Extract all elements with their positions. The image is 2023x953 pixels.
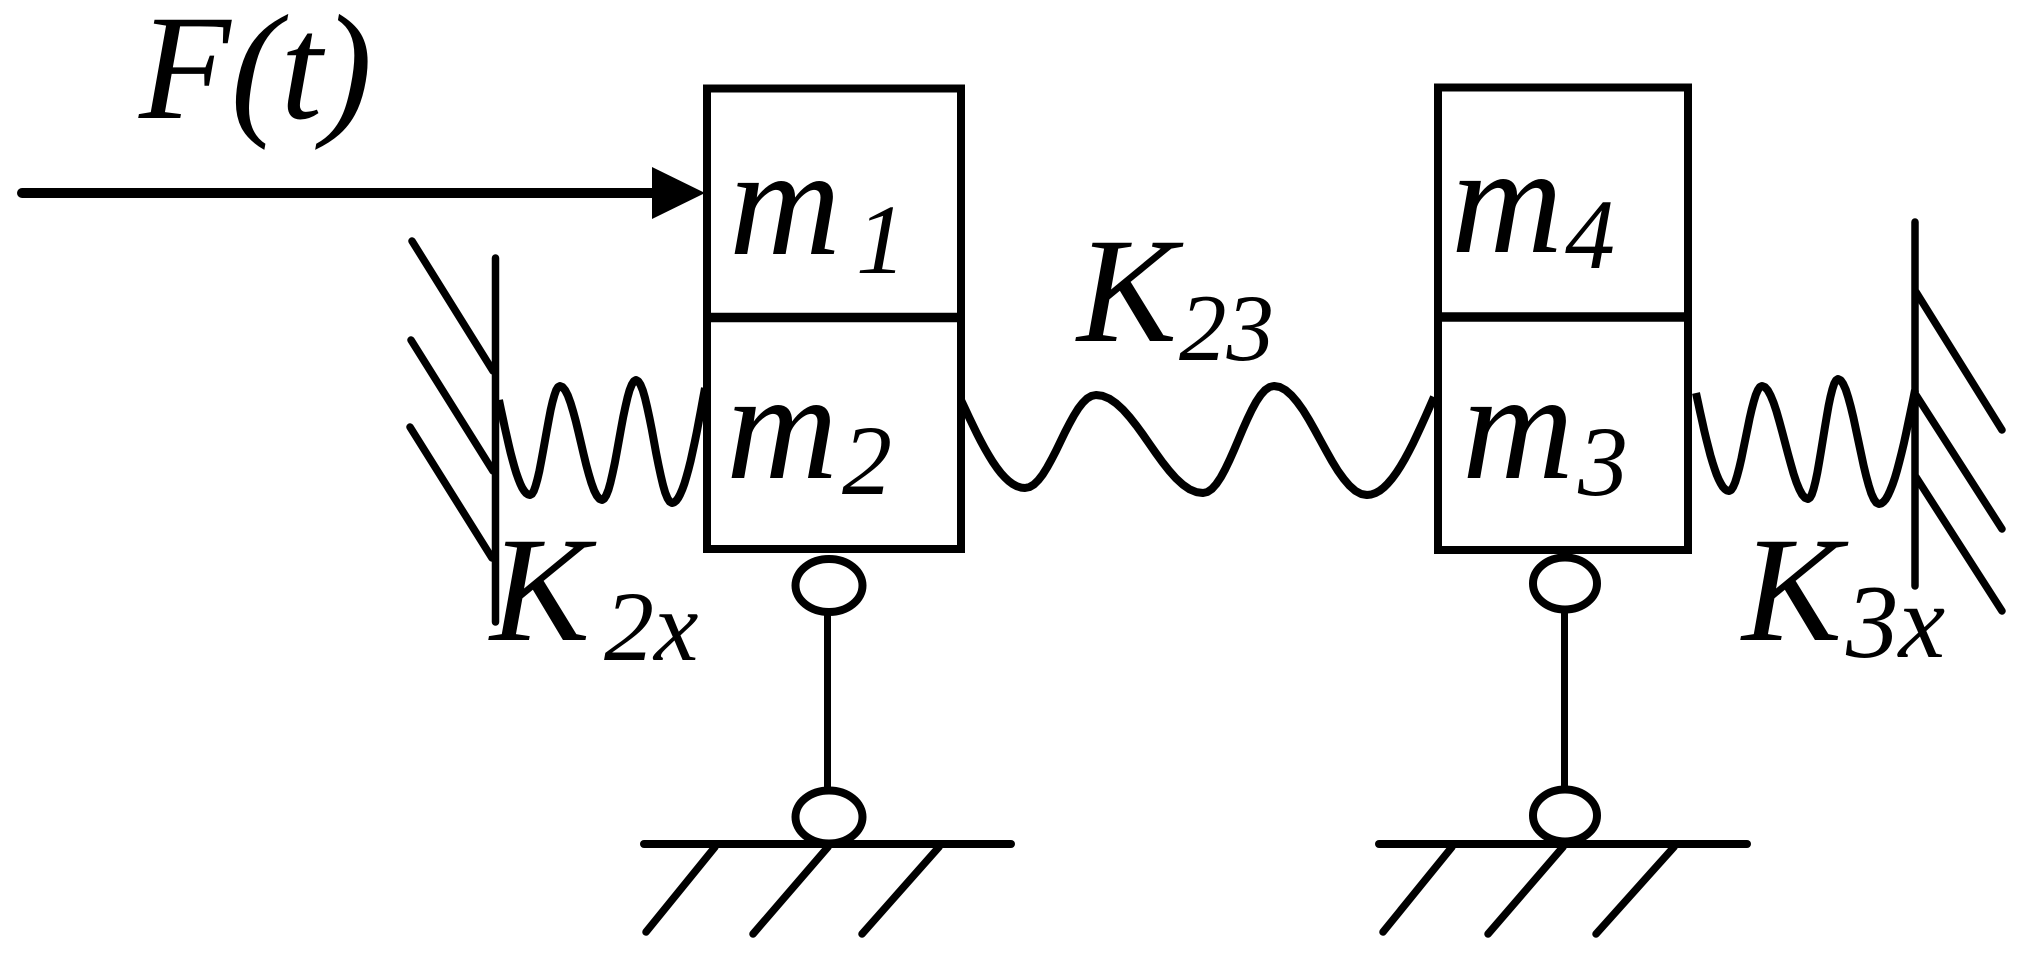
svg-text:m: m <box>1451 114 1563 286</box>
force arrow shaft <box>22 188 660 198</box>
ground line right <box>1379 840 1747 848</box>
right wall hatch 1 <box>1916 292 2002 430</box>
svg-text:3: 3 <box>1577 406 1628 517</box>
pin joint upper left (m2) <box>796 559 863 612</box>
right wall hatch 2 <box>1916 395 2002 529</box>
right wall line <box>1911 222 1919 586</box>
svg-text:m: m <box>1462 340 1574 512</box>
spring K3x <box>1696 379 1915 504</box>
ground hatch right 2 <box>1488 847 1563 934</box>
spring K2x <box>499 380 705 503</box>
pin joint lower right (ground) <box>1533 790 1597 842</box>
left wall hatch 3 <box>410 427 492 558</box>
ground hatch left 1 <box>646 847 715 932</box>
ground hatch left 2 <box>753 847 828 934</box>
mass m1 box <box>707 89 961 318</box>
svg-text:K: K <box>488 507 597 673</box>
left wall hatch 1 <box>412 241 493 371</box>
mass m3 box <box>1438 317 1688 550</box>
force arrow head <box>652 167 705 219</box>
right wall hatch 3 <box>1916 477 2002 611</box>
left wall hatch 2 <box>411 340 493 471</box>
svg-text:4: 4 <box>1565 179 1615 290</box>
svg-text:m: m <box>729 116 841 288</box>
svg-text:2x: 2x <box>604 571 698 682</box>
mass m2 box <box>707 318 961 550</box>
mass m4 box <box>1438 88 1688 318</box>
m1/m2 interface line <box>703 313 965 323</box>
left wall line <box>492 258 500 622</box>
svg-text:K: K <box>1075 208 1184 374</box>
ground hatch right 1 <box>1383 847 1452 932</box>
svg-text:K: K <box>1740 507 1849 673</box>
spring K23 <box>961 386 1434 495</box>
svg-text:3x: 3x <box>1845 563 1945 680</box>
link m3 to ground <box>1561 610 1568 789</box>
svg-text:23: 23 <box>1179 275 1274 381</box>
pin joint lower left (ground) <box>796 791 863 844</box>
link m2 to ground <box>824 612 831 790</box>
svg-text:m: m <box>726 340 838 512</box>
svg-text:F(t): F(t) <box>138 0 372 151</box>
ground hatch left 3 <box>862 847 939 934</box>
ground line left <box>644 840 1011 848</box>
m4/m3 interface line <box>1434 312 1692 322</box>
svg-text:1: 1 <box>856 184 906 295</box>
ground hatch right 3 <box>1596 847 1674 934</box>
pin joint upper right (m3) <box>1533 558 1597 610</box>
svg-text:2: 2 <box>842 405 892 516</box>
